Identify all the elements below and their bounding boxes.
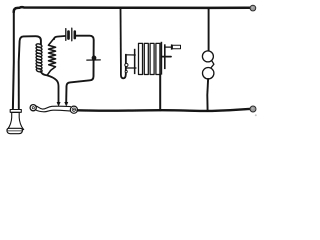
node ground terminal bottom-right bbox=[250, 106, 256, 112]
wire left vertical down to plug bbox=[12, 10, 15, 109]
wire top bus bbox=[14, 7, 251, 12]
slider crossbar bbox=[162, 56, 171, 58]
battery B1 long plate 2 bbox=[71, 28, 73, 41]
wire zigzag top hook to battery bbox=[54, 36, 65, 39]
wire spark-gap branch upper bbox=[208, 9, 210, 51]
spark gap ball lower bbox=[203, 68, 214, 79]
slider knob body bbox=[172, 45, 180, 48]
scan smudge near ground terminal bbox=[255, 114, 257, 116]
tuning condenser plate 3 bbox=[150, 43, 154, 74]
spark gap ball upper bbox=[202, 51, 213, 62]
battery B1 long plate 1 bbox=[65, 29, 67, 41]
wire spark-gap branch lower bbox=[206, 79, 209, 111]
tuning condenser plate 4 bbox=[156, 43, 160, 74]
wire battery right to corner, down, across, down to key contact bbox=[66, 36, 94, 102]
tuning condenser plate 1 bbox=[139, 43, 143, 74]
slider knob cap bbox=[171, 44, 173, 49]
tuning condenser right end bar bbox=[161, 42, 163, 75]
telegraph key knob ring (right) bbox=[70, 106, 77, 113]
wire inner-left branch (plug to coil) bbox=[19, 36, 41, 108]
tuning condenser plate 2 bbox=[144, 43, 148, 74]
battery B1 short plate 2 bbox=[74, 32, 77, 39]
ground plug base bbox=[7, 128, 22, 133]
battery B1 short plate 1 bbox=[67, 32, 70, 39]
contact arrow right bbox=[65, 102, 68, 106]
spark gap connector bbox=[211, 61, 214, 68]
inductor L1 left coil bbox=[36, 43, 43, 72]
connector stub lower bbox=[126, 67, 136, 69]
ground plug flared skirt bbox=[7, 112, 24, 129]
contact arrow left bbox=[57, 102, 60, 106]
wire coil junction down to key contact bbox=[41, 71, 59, 102]
slider rod bbox=[166, 46, 171, 48]
wire bottom bus bbox=[78, 109, 251, 111]
node antenna terminal top-right bbox=[250, 5, 256, 11]
connector small lower eyelet bbox=[125, 71, 127, 73]
telegraph key pivot ring (left) bbox=[30, 105, 36, 111]
ground plug collar bbox=[10, 110, 21, 113]
connector stub upper bbox=[126, 54, 135, 56]
wire condenser down to bottom bus bbox=[159, 75, 161, 111]
inductor L2 primary winding (zigzag) bbox=[47, 38, 55, 75]
connector eyelet bbox=[125, 63, 128, 66]
wire condenser branch from top bus down, with hook bbox=[121, 9, 126, 79]
telegraph key lever arm bbox=[36, 106, 70, 109]
tuning condenser left end bar bbox=[134, 49, 136, 74]
interrupter contact tap on battery lead bbox=[87, 59, 101, 61]
tuning condenser slider bar bbox=[164, 44, 166, 69]
